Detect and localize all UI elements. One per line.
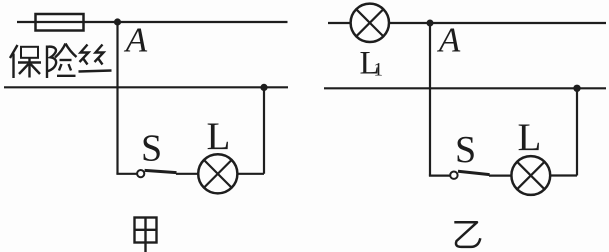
fuse (保险丝) body bbox=[36, 14, 84, 31]
wire: left live wire, node A to right end bbox=[118, 21, 288, 23]
lamp L (left circuit) bbox=[198, 154, 237, 193]
svg-text:S: S bbox=[141, 127, 162, 169]
svg-text:1: 1 bbox=[374, 60, 384, 81]
wire: right neutral wire bbox=[324, 87, 606, 89]
wire: right vertical up to neutral (right circuit) bbox=[576, 88, 578, 175]
label 甲 (left circuit caption, drawn strokes) bbox=[135, 218, 157, 252]
label 保险丝 (fuse label, drawn strokes) bbox=[10, 44, 112, 79]
label 乙 (right circuit caption, drawn strokes) bbox=[454, 222, 480, 247]
险 character bbox=[47, 44, 77, 79]
丝 character bbox=[79, 45, 112, 72]
lamp L1 (in live wire of right circuit) bbox=[351, 4, 389, 42]
wire: right branch to switch bbox=[429, 175, 451, 177]
node A (left circuit) junction dot bbox=[114, 18, 121, 25]
svg-text:A: A bbox=[437, 21, 461, 60]
wire: right vertical up to neutral (left circuit) bbox=[263, 87, 265, 173]
wire: vertical drop from node A bbox=[116, 22, 118, 174]
wire: left branch to switch bbox=[116, 173, 137, 175]
wire: vertical drop from node A (right) bbox=[429, 23, 431, 176]
wire: left neutral wire bbox=[4, 86, 288, 88]
wire: right live wire, lamp L1 to right end bbox=[389, 22, 606, 24]
junction dot on left neutral wire bbox=[260, 84, 267, 91]
svg-text:L: L bbox=[207, 115, 231, 158]
node A (right circuit) junction dot bbox=[427, 20, 434, 27]
lamp L (right circuit) bbox=[511, 156, 550, 195]
switch S (right circuit) bbox=[450, 171, 489, 179]
保 character bbox=[10, 45, 41, 78]
svg-text:L: L bbox=[518, 116, 542, 159]
wire: right live wire, left end to lamp L1 bbox=[328, 22, 351, 24]
wire: left live wire, left of fuse to node A bbox=[17, 21, 118, 23]
label L1 (lamp in right live wire) bbox=[360, 46, 384, 82]
wire: lamp to right vertical (right circuit) bbox=[550, 174, 577, 176]
wire: switch to lamp (left) bbox=[176, 173, 198, 175]
wire: switch to lamp (right) bbox=[489, 175, 512, 177]
switch S (left circuit) bbox=[137, 170, 176, 177]
wire: lamp to right vertical (left circuit) bbox=[237, 173, 264, 175]
junction dot on right neutral wire bbox=[573, 85, 580, 92]
svg-text:S: S bbox=[455, 129, 476, 171]
svg-text:A: A bbox=[124, 21, 148, 60]
